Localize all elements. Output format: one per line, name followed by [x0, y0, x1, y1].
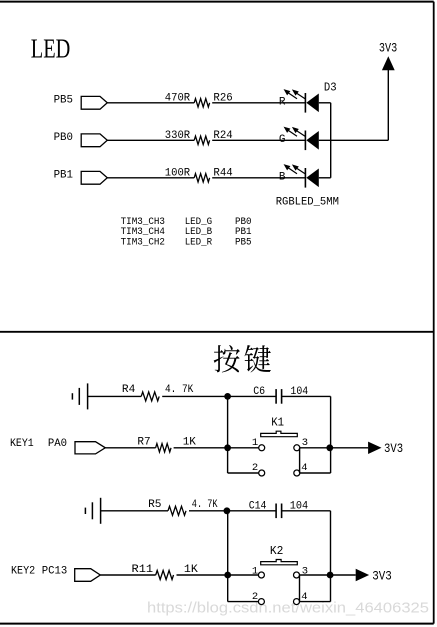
switch K1 pin 2	[259, 470, 265, 476]
junction (R4/C6 node)	[224, 393, 231, 400]
svg-text:R7: R7	[137, 437, 150, 449]
svg-text:TIM3_CH3: TIM3_CH3	[121, 216, 166, 227]
wire right column down (K1)	[330, 396, 332, 473]
svg-text:100R: 100R	[165, 167, 191, 179]
wire ground to R5	[101, 510, 168, 512]
svg-text:PB0: PB0	[54, 132, 73, 144]
svg-text:D3: D3	[324, 80, 337, 94]
switch K2 pin 3	[294, 572, 300, 578]
wire bottom right to pin4	[300, 472, 331, 474]
wire vertical to 3V3 arrow	[387, 70, 389, 141]
svg-text:KEY2: KEY2	[11, 565, 35, 577]
wire bottom right to pin4 (K2)	[299, 601, 330, 603]
resistor R11	[156, 571, 174, 580]
svg-text:1: 1	[252, 437, 258, 449]
capacitor C14	[276, 504, 282, 519]
junction (R5/C14 node)	[224, 507, 231, 514]
LED R emission arrows	[285, 90, 306, 99]
wire PC13 to R11	[100, 574, 155, 576]
LED B cathode bar	[304, 168, 306, 188]
svg-text:K2: K2	[270, 544, 284, 558]
section divider	[0, 331, 434, 333]
svg-text:R11: R11	[132, 564, 154, 576]
char 键	[245, 345, 272, 373]
svg-text:R4: R4	[122, 384, 136, 396]
svg-text:C6: C6	[253, 386, 265, 398]
wire LED B anode to bus	[319, 177, 331, 179]
svg-text:LED_R: LED_R	[185, 237, 213, 248]
svg-text:KEY1: KEY1	[10, 438, 34, 450]
wire PB0 to resistor	[107, 139, 194, 141]
wire right column down (K2)	[330, 511, 332, 602]
LED R cathode bar	[304, 93, 306, 113]
3V3 power arrow (LED)	[382, 56, 395, 70]
LED R triangle	[306, 94, 319, 113]
svg-text:3V3: 3V3	[384, 442, 403, 456]
port PB5 connector	[81, 96, 107, 109]
wire PB1 to resistor	[107, 177, 194, 179]
ground (KEY2 RC)	[85, 498, 100, 524]
svg-text:LED: LED	[31, 32, 71, 63]
svg-text:1: 1	[252, 566, 258, 578]
resistor R4	[141, 392, 159, 401]
svg-text:3: 3	[302, 566, 308, 578]
svg-text:https://blog.csdn.net/weixin_4: https://blog.csdn.net/weixin_46406325	[147, 601, 429, 617]
wire ground to R4	[88, 395, 142, 397]
resistor R24	[194, 136, 209, 144]
svg-text:PC13: PC13	[42, 565, 68, 577]
svg-text:PA0: PA0	[48, 438, 67, 450]
port PB1 connector	[81, 171, 107, 184]
ground (KEY1 RC)	[72, 383, 87, 409]
resistor R26	[194, 99, 209, 107]
wire resistor to LED G	[212, 139, 305, 141]
LED G triangle	[306, 131, 319, 150]
frame top border	[0, 1, 434, 3]
wire C14 to right column	[282, 510, 331, 512]
wire left column down (K2)	[227, 511, 229, 602]
port PC13 connector	[75, 569, 101, 582]
svg-text:C14: C14	[249, 501, 267, 513]
switch K1 pin 3	[294, 445, 300, 451]
capacitor C6	[276, 389, 282, 404]
wire PA0 to R7	[105, 447, 155, 449]
svg-text:3V3: 3V3	[372, 569, 392, 583]
LED G emission arrows	[285, 128, 306, 137]
svg-text:K1: K1	[271, 416, 284, 430]
3V3 arrow (K2)	[356, 569, 369, 581]
svg-text:PB5: PB5	[235, 237, 252, 248]
wire left column down (K1)	[227, 396, 229, 473]
svg-text:R5: R5	[148, 499, 161, 511]
D3 anode bus vertical wire	[330, 103, 332, 178]
frame right border	[433, 2, 435, 624]
wire R5 to C14	[189, 510, 276, 512]
port PB0 connector	[81, 134, 107, 147]
switch K2 pin 1	[258, 572, 264, 578]
svg-text:PB1: PB1	[54, 169, 74, 181]
svg-text:4. 7K: 4. 7K	[192, 499, 218, 511]
wire R4 to C6	[162, 395, 276, 397]
svg-text:3V3: 3V3	[379, 41, 397, 55]
LED G cathode bar	[304, 131, 306, 151]
svg-text:2: 2	[252, 591, 258, 603]
LED B triangle	[306, 169, 319, 188]
resistor R44	[194, 174, 209, 182]
svg-text:B: B	[279, 171, 286, 183]
svg-text:LED_G: LED_G	[185, 216, 213, 227]
switch K2 pin 4	[294, 599, 300, 605]
wire PB5 to resistor	[107, 102, 194, 104]
wire pin3 to pin4 vertical (K2)	[299, 575, 301, 602]
svg-text:2: 2	[252, 462, 258, 474]
wire R11 to pin1 (K2)	[177, 574, 259, 576]
svg-text:TIM3_CH2: TIM3_CH2	[121, 237, 166, 248]
svg-text:1K: 1K	[183, 437, 197, 449]
svg-text:1K: 1K	[184, 564, 198, 576]
char 按	[214, 345, 240, 373]
wire C6 to right column	[282, 395, 331, 397]
3V3 arrow (K1)	[368, 442, 381, 454]
LED B emission arrows	[285, 165, 306, 174]
wire resistor to LED R	[212, 102, 305, 104]
port PA0 connector	[75, 442, 105, 454]
junction (PA0 node)	[224, 444, 231, 451]
junction (K2 right node)	[327, 572, 334, 579]
resistor R7	[156, 444, 171, 452]
svg-text:330R: 330R	[165, 130, 191, 142]
wire pin3 to 3V3 (K1)	[300, 447, 368, 449]
svg-text:4: 4	[301, 591, 307, 603]
switch K1 button	[261, 431, 298, 437]
svg-text:PB5: PB5	[54, 94, 73, 106]
wire LED R anode to bus	[319, 102, 331, 104]
svg-text:4: 4	[301, 462, 307, 474]
svg-text:G: G	[279, 134, 286, 146]
wire bottom left to pin2	[228, 472, 259, 474]
wire pin3 to pin4 vertical (K1)	[299, 448, 301, 473]
wire resistor to LED B	[212, 177, 305, 179]
wire LED G anode to 3V3	[319, 139, 389, 141]
switch K1 pin 1	[259, 445, 265, 451]
wire R7 to pin1	[174, 447, 259, 449]
wire pin3 to 3V3 (K2)	[299, 574, 355, 576]
junction (K1 right node)	[326, 444, 333, 451]
svg-text:R: R	[279, 96, 286, 108]
frame bottom border	[0, 623, 434, 625]
svg-text:470R: 470R	[165, 92, 191, 104]
switch K2 button	[261, 560, 298, 565]
svg-text:RGBLED_5MM: RGBLED_5MM	[276, 196, 339, 208]
svg-text:4. 7K: 4. 7K	[165, 384, 194, 396]
junction (PC13 node)	[224, 572, 231, 579]
switch K1 pin 4	[294, 470, 300, 476]
wire bottom left to pin2 (K2)	[228, 601, 259, 603]
svg-text:PB0: PB0	[235, 216, 252, 227]
resistor R5	[168, 506, 186, 515]
switch K2 pin 2	[258, 599, 264, 605]
